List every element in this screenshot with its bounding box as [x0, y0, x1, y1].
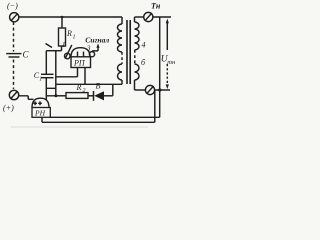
wire secondary bottom out [155, 89, 170, 91]
mark near R1 [46, 44, 53, 48]
terminal secondary bottom [145, 85, 154, 94]
wire main to R2 [56, 95, 66, 97]
svg-text:4: 4 [142, 41, 146, 50]
svg-text:C: C [23, 50, 30, 60]
wire primary bottom lead [121, 80, 123, 84]
wire RP right pin [56, 68, 122, 85]
voltage arrow Utn [166, 22, 168, 50]
regulator box RN [32, 108, 50, 118]
wire right return inner [50, 17, 159, 117]
svg-text:R: R [66, 29, 72, 38]
wire R1 to C1 [46, 50, 61, 52]
resistor R1 [61, 17, 63, 28]
node main junction [54, 94, 57, 97]
svg-text:Сигнал: Сигнал [85, 36, 109, 45]
wire dashed battery top [13, 22, 15, 52]
svg-text:(−): (−) [7, 2, 18, 11]
wire secondary top lead [135, 16, 144, 18]
transformer primary winding [121, 17, 123, 24]
capacitor C1 [45, 51, 47, 75]
svg-text:РН: РН [34, 109, 46, 118]
svg-text:(+): (+) [3, 104, 14, 113]
terminal plus [9, 90, 18, 99]
capacitor C [6, 53, 21, 55]
resistor R2 [66, 93, 88, 99]
junction top bus / R1 [61, 16, 64, 19]
wire diode branch up [112, 84, 114, 96]
terminal minus [10, 13, 19, 22]
wire plus lead [19, 96, 34, 100]
svg-text:1: 1 [73, 35, 76, 41]
wire RP left pin [56, 68, 78, 77]
transformer core [126, 20, 128, 84]
svg-text:тн: тн [167, 59, 175, 66]
regulator dome RN [32, 98, 49, 107]
wire C1 bottom branch [46, 51, 56, 96]
terminal secondary top [144, 12, 153, 21]
faint caption rule [11, 126, 148, 128]
wire secondary bottom lead [135, 89, 146, 91]
svg-text:R: R [76, 83, 82, 92]
wire dashed battery bottom [13, 60, 15, 90]
wire signal lead arrow [96, 43, 99, 47]
transformer secondary winding [134, 17, 136, 22]
svg-text:РП: РП [73, 58, 86, 67]
svg-text:3: 3 [86, 44, 91, 53]
relay box RP [71, 57, 91, 68]
svg-text:2: 2 [83, 88, 86, 94]
wire right return outer [42, 90, 155, 122]
svg-text:Тн: Тн [151, 2, 161, 11]
relay dome RP [71, 48, 90, 57]
svg-text:1: 1 [62, 40, 66, 49]
diode V [93, 91, 95, 101]
node crossing [158, 88, 161, 91]
wire top bus [19, 16, 122, 18]
svg-text:В: В [96, 82, 101, 91]
svg-text:1: 1 [39, 76, 42, 82]
wire secondary top out [153, 16, 171, 18]
